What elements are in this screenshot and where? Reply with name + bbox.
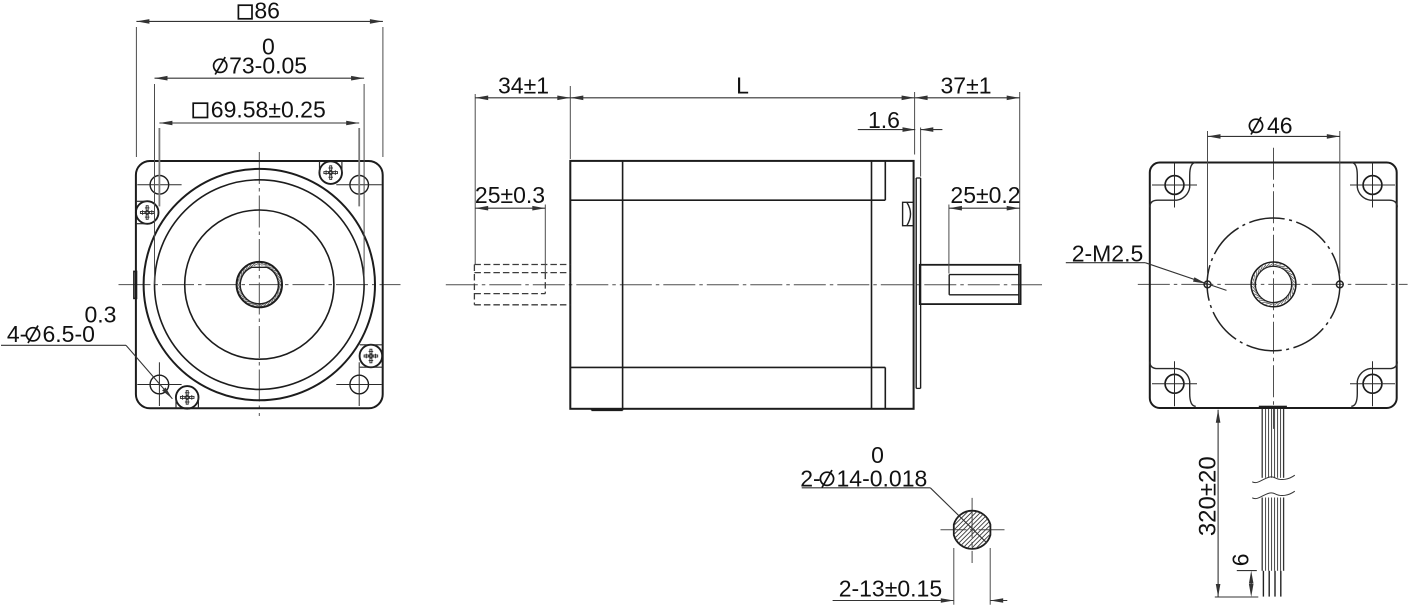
svg-text:4-: 4- xyxy=(7,321,27,347)
svg-text:L: L xyxy=(736,73,749,99)
svg-text:2-: 2- xyxy=(800,465,820,491)
svg-text:34±1: 34±1 xyxy=(498,73,549,99)
svg-text:86: 86 xyxy=(254,0,280,23)
svg-text:320±20: 320±20 xyxy=(1195,456,1222,536)
svg-text:0: 0 xyxy=(871,442,884,468)
svg-text:46: 46 xyxy=(1267,113,1293,139)
svg-text:14-0.018: 14-0.018 xyxy=(837,465,928,491)
svg-text:2-13±0.15: 2-13±0.15 xyxy=(839,576,942,602)
svg-text:37±1: 37±1 xyxy=(941,73,992,99)
svg-text:25±0.2: 25±0.2 xyxy=(950,182,1020,208)
svg-text:25±0.3: 25±0.3 xyxy=(475,182,545,208)
svg-text:1.6: 1.6 xyxy=(868,107,900,133)
svg-text:69.58±0.25: 69.58±0.25 xyxy=(211,97,326,123)
svg-text:2-M2.5: 2-M2.5 xyxy=(1072,241,1144,267)
svg-text:0: 0 xyxy=(262,34,275,60)
svg-text:6: 6 xyxy=(1227,553,1253,566)
svg-text:0.3: 0.3 xyxy=(85,301,117,327)
